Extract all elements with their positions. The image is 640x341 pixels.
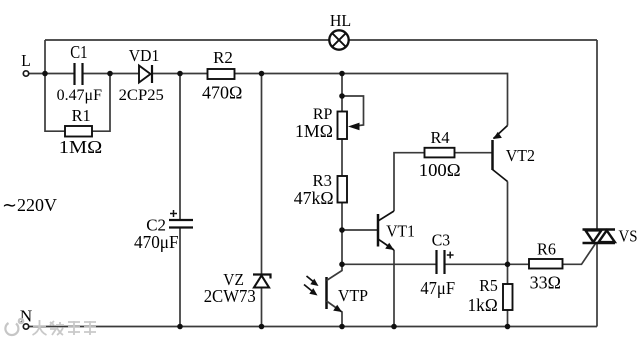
node M VT1 emitter bottom [391, 324, 397, 330]
svg-text:47kΩ: 47kΩ [294, 188, 334, 208]
triac VS [583, 227, 638, 246]
wire VZ branch [261, 74, 263, 327]
svg-text:HL: HL [330, 11, 351, 30]
watermark text [33, 320, 97, 335]
resistor R6 [529, 240, 563, 293]
label ~220V [2, 195, 57, 215]
svg-text:R4: R4 [430, 128, 449, 147]
svg-text:2CW73: 2CW73 [204, 286, 256, 306]
svg-text:R1: R1 [72, 106, 91, 125]
node C VD1-C2 [177, 71, 183, 77]
wire R5 leads [507, 264, 509, 326]
node B C1 right [107, 71, 113, 77]
svg-text:VD1: VD1 [129, 46, 160, 65]
wire R2 to VT2 emitter corner [235, 74, 508, 126]
svg-text:47μF: 47μF [420, 278, 455, 298]
svg-text:100Ω: 100Ω [419, 160, 461, 180]
wire VT1 base [342, 229, 377, 231]
node F RP wiper [339, 93, 345, 99]
capacitor C2 [134, 210, 193, 252]
transistor VT2 [493, 126, 536, 182]
svg-text:C1: C1 [70, 42, 87, 62]
svg-text:L: L [21, 51, 31, 70]
wire right side vertical [596, 40, 598, 327]
wire RP R3 vertical [341, 74, 343, 265]
wire VD1 to R2 [152, 73, 208, 75]
resistor R2 [202, 48, 242, 103]
node L2 VTP bottom [339, 324, 345, 330]
svg-text:R2: R2 [213, 48, 233, 67]
resistor R1 [59, 106, 102, 157]
wire VTP node to C3 [342, 263, 436, 265]
terminal N [20, 307, 32, 330]
wire bottom rail [29, 326, 598, 328]
wire top rail right of lamp [349, 39, 597, 41]
svg-text:1kΩ: 1kΩ [468, 295, 498, 315]
svg-text:VS: VS [619, 227, 638, 246]
wire VT1 collector to R4 [394, 153, 425, 211]
node N2 R5 bottom [505, 324, 511, 330]
wire top-left vertical [44, 40, 46, 74]
node H VTP collector [339, 262, 345, 268]
svg-text:1MΩ: 1MΩ [59, 137, 102, 157]
svg-text:C3: C3 [432, 231, 450, 250]
svg-text:470μF: 470μF [134, 232, 179, 252]
wire VT2 collector down [507, 182, 509, 265]
terminal L [21, 51, 31, 76]
resistor R5 [468, 276, 513, 315]
wire R4 to VT2 base [455, 152, 492, 154]
diode VD1 [119, 46, 164, 104]
zener diode VZ [204, 270, 271, 306]
wire R6 to triac gate [563, 244, 596, 265]
lamp HL [329, 11, 351, 50]
resistor R4 [419, 128, 461, 180]
watermark logo [5, 319, 23, 335]
svg-text:470Ω: 470Ω [202, 83, 242, 103]
transistor VT1 [378, 211, 415, 250]
potentiometer RP [295, 106, 347, 141]
node I C3-R5-R6 [505, 262, 511, 268]
wire R1 loop [45, 74, 110, 132]
svg-text:VT1: VT1 [386, 222, 415, 241]
resistor R3 [294, 171, 347, 208]
wire L terminal to node [29, 73, 75, 75]
svg-text:∼220V: ∼220V [2, 195, 57, 215]
wire C3 to node [446, 263, 530, 265]
svg-text:1MΩ: 1MΩ [295, 121, 333, 141]
node E main-RP [339, 71, 345, 77]
wire top rail left of lamp [45, 39, 329, 41]
phototransistor VTP [304, 264, 368, 326]
svg-text:33Ω: 33Ω [530, 273, 561, 293]
capacitor C3 [420, 231, 455, 299]
svg-text:VT2: VT2 [506, 146, 535, 165]
wire C2 branch [179, 74, 181, 327]
node A main line left [42, 71, 48, 77]
node J C2 bottom [177, 324, 183, 330]
svg-text:R5: R5 [479, 276, 498, 295]
svg-text:0.47μF: 0.47μF [57, 87, 102, 104]
wire C1 right plate to VD1 [83, 73, 139, 75]
wire VT1 emitter down [393, 250, 395, 327]
wire RP wiper loop [342, 96, 364, 130]
svg-text:2CP25: 2CP25 [119, 87, 164, 104]
node K VZ bottom [259, 324, 265, 330]
capacitor C1 [57, 42, 102, 104]
node D R2-VZ [259, 71, 265, 77]
node G VT1 base [339, 227, 345, 233]
svg-text:VTP: VTP [338, 286, 368, 305]
svg-text:R6: R6 [537, 240, 556, 259]
